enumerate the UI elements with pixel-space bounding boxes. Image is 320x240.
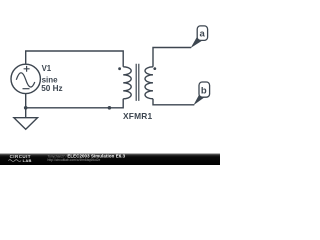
svg-text:V1: V1 [42, 64, 52, 73]
wire bottom: left rail to primary bottom [26, 94, 124, 108]
voltage source V1 circle [11, 64, 40, 93]
svg-text:LAB: LAB [23, 158, 32, 163]
terminal b tag [199, 82, 210, 97]
wire secondary bottom to terminal b [153, 99, 194, 105]
terminal a tail [191, 36, 202, 48]
svg-text:b: b [201, 85, 207, 96]
transformer XFMR1 primary winding [123, 67, 131, 99]
node junction dot at ground [24, 106, 28, 110]
footer logo squiggle [8, 160, 21, 162]
svg-text:a: a [200, 29, 206, 40]
wire top: left rail to primary top [26, 51, 124, 67]
transformer core bars [136, 64, 139, 101]
V1 sine wave symbol [16, 73, 35, 87]
terminal b tail [193, 93, 204, 105]
svg-text:XFMR1: XFMR1 [123, 111, 153, 121]
terminal a tag [197, 26, 207, 41]
wire secondary top to terminal a [153, 48, 191, 67]
svg-text:50 Hz: 50 Hz [41, 84, 62, 93]
transformer XFMR1 secondary winding [145, 67, 153, 99]
svg-text:http://circuitlab.com/c/4fm6bq: http://circuitlab.com/c/4fm6bq6tkd2e [48, 158, 101, 162]
ground [25, 108, 27, 118]
secondary phase dot [153, 67, 156, 70]
V1 plus sign [24, 66, 30, 72]
primary phase dot [118, 67, 121, 70]
V1 minus sign [23, 88, 30, 90]
node junction dot mid bottom wire [108, 106, 112, 110]
